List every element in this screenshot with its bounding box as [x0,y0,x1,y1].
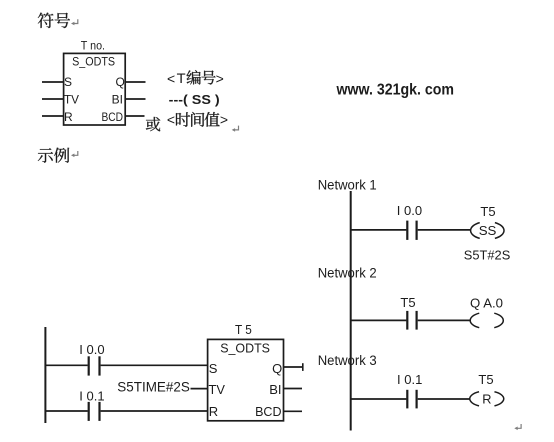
wire rung N3 left segment [351,398,407,400]
svg-text:R: R [64,110,73,124]
svg-text:S5TIME#2S: S5TIME#2S [117,379,190,394]
svg-text:>: > [220,111,228,127]
wire stub S input [42,81,64,83]
paragraph return mark [232,126,239,132]
wire rung N3 right segment [418,398,470,400]
svg-text:T 5: T 5 [235,323,252,337]
svg-text:I 0.1: I 0.1 [79,388,104,403]
coil Q A.0 output [470,313,479,328]
svg-text:---( SS ): ---( SS ) [169,92,220,107]
wire rung N1 right segment [418,229,471,231]
label 或 (or) [146,117,160,131]
wire stub Q output (example) [284,366,303,368]
contact T5 (N2) [406,311,408,330]
paragraph return mark [71,19,78,25]
coil T5 (SS) set [471,223,480,239]
paragraph return mark [514,424,521,430]
svg-text:S: S [64,75,72,89]
svg-text:<: < [167,70,175,86]
contact I0.1 (example) [88,402,90,421]
svg-text:BCD: BCD [102,110,124,124]
contact I0.1 (N3) [406,390,408,409]
svg-text:R: R [482,392,491,407]
svg-text:BI: BI [269,382,281,397]
wire stub TV input [42,98,64,100]
svg-text:S: S [209,361,218,376]
svg-text:>: > [216,70,224,86]
svg-text:T5: T5 [480,204,495,219]
wire rung R row left [45,410,87,412]
heading 符号 (Symbol) [38,13,54,28]
svg-text:T no.: T no. [81,38,105,52]
coil T5 (R) reset [470,392,479,406]
paragraph return mark [71,151,78,157]
wire rung S row right [101,364,208,366]
wire rung N2 right segment [418,319,471,321]
wire stub R input [42,115,64,117]
svg-text:TV: TV [64,92,79,106]
svg-text:TV: TV [209,382,226,397]
power rail (networks) [350,191,352,431]
svg-text:I 0.1: I 0.1 [397,372,422,387]
svg-text:Network 2: Network 2 [318,266,377,281]
wire rung R row right [101,410,208,412]
contact I0.0 (N1) [406,221,408,240]
svg-text:S_ODTS: S_ODTS [72,55,115,69]
contact I0.0 (example) [88,356,90,375]
power rail (example ladder) [44,327,46,423]
wire stub BI output [125,98,145,100]
svg-text:<: < [167,111,175,127]
wire rung N2 left segment [351,319,407,321]
heading 示例 (Example) [38,148,53,162]
svg-text:Network 1: Network 1 [318,177,377,192]
svg-text:BI: BI [112,92,123,106]
svg-text:Q: Q [272,361,282,376]
terminal tick on Q stub [302,363,304,371]
svg-text:BCD: BCD [255,404,281,419]
svg-text:SS: SS [479,223,497,238]
svg-text:Q A.0: Q A.0 [470,296,503,311]
wire TV input dash [191,388,208,390]
svg-text:T5: T5 [478,372,493,387]
wire stub BCD output [125,115,144,117]
svg-text:I 0.0: I 0.0 [397,203,422,218]
wire rung N1 left segment [351,229,407,231]
svg-text:T: T [177,70,186,86]
svg-text:S5T#2S: S5T#2S [464,248,511,263]
svg-text:T5: T5 [400,295,415,310]
svg-text:R: R [209,404,218,419]
svg-text:I 0.0: I 0.0 [79,342,104,357]
svg-text:Network 3: Network 3 [318,353,377,368]
wire stub BCD output (example) [284,410,303,412]
wire rung S row left [45,364,87,366]
wire stub BI output (example) [284,388,303,390]
timer function block box S_ODTS (symbol) [64,53,126,125]
svg-text:S_ODTS: S_ODTS [220,340,270,355]
wire stub Q output [125,81,145,83]
svg-text:www. 321gk. com: www. 321gk. com [336,81,454,98]
svg-text:Q: Q [115,75,124,89]
timer function block box T5 (example) [208,339,284,420]
